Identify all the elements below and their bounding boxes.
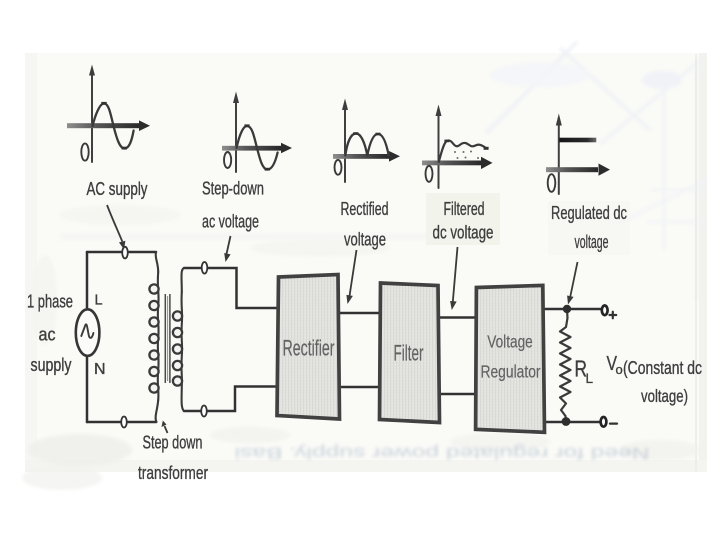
- svg-text:ac: ac: [39, 325, 56, 345]
- svg-text:Regulated dc: Regulated dc: [551, 203, 627, 223]
- svg-text:Need for regulated power suppl: Need for regulated power supply. Basi: [235, 444, 650, 461]
- svg-text:transformer: transformer: [138, 462, 208, 483]
- svg-text:voltage): voltage): [641, 386, 688, 406]
- svg-text:Filter: Filter: [394, 341, 424, 366]
- svg-text:dc voltage: dc voltage: [433, 223, 494, 243]
- svg-text:ac voltage: ac voltage: [202, 212, 259, 232]
- svg-text:L: L: [95, 293, 103, 309]
- svg-text:o: o: [616, 362, 623, 377]
- svg-text:Step down: Step down: [143, 433, 203, 453]
- svg-text:N: N: [94, 361, 106, 378]
- svg-text:Rectified: Rectified: [341, 199, 389, 219]
- svg-text:Step-down: Step-down: [202, 179, 264, 199]
- svg-text:Filtered: Filtered: [444, 199, 485, 219]
- svg-text:(Constant dc: (Constant dc: [623, 358, 702, 378]
- svg-text:L: L: [586, 371, 594, 386]
- svg-text:voltage: voltage: [575, 232, 609, 252]
- svg-text:AC supply: AC supply: [87, 179, 148, 199]
- svg-text:voltage: voltage: [344, 230, 386, 250]
- svg-text:Voltage: Voltage: [487, 332, 533, 352]
- svg-text:Regulator: Regulator: [481, 362, 541, 382]
- svg-text:supply: supply: [31, 355, 72, 375]
- svg-text:Rectifier: Rectifier: [283, 336, 335, 361]
- svg-text:1 phase: 1 phase: [27, 292, 73, 312]
